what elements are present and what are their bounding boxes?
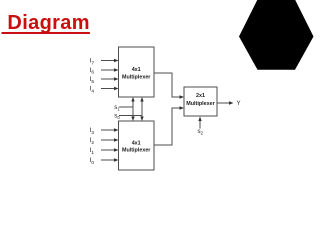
mux U2 4x1 (lower)	[119, 121, 155, 170]
svg-text:I1: I1	[90, 147, 95, 156]
input I0	[90, 157, 119, 166]
wire s0 vertical (to both muxes)	[140, 97, 143, 121]
svg-text:s1: s1	[114, 104, 120, 112]
svg-text:Multiplexer: Multiplexer	[186, 101, 215, 107]
mux U3 2x1	[184, 87, 217, 116]
svg-text:Y: Y	[237, 101, 241, 107]
wire U1 output to U3 input	[154, 73, 184, 99]
black hexagon	[239, 0, 314, 70]
input I2	[90, 137, 119, 146]
svg-text:Multiplexer: Multiplexer	[122, 75, 151, 81]
title "Diagram"	[2, 13, 90, 33]
svg-text:I6: I6	[90, 67, 95, 76]
svg-text:4x1: 4x1	[132, 140, 141, 146]
svg-text:I2: I2	[90, 137, 95, 146]
svg-text:s0: s0	[114, 113, 120, 121]
select s0 label and wire	[114, 113, 142, 121]
svg-text:Multiplexer: Multiplexer	[122, 148, 151, 154]
input I7	[90, 58, 119, 67]
svg-text:s2: s2	[198, 128, 204, 136]
input I1	[90, 147, 119, 156]
svg-text:I0: I0	[90, 157, 95, 166]
svg-text:I5: I5	[90, 76, 95, 85]
svg-text:4x1: 4x1	[132, 67, 141, 73]
svg-text:I3: I3	[90, 127, 95, 136]
input I3	[90, 127, 119, 136]
input I4	[90, 86, 119, 95]
svg-text:I7: I7	[90, 58, 95, 67]
input I5	[90, 76, 119, 85]
input I6	[90, 67, 119, 76]
svg-text:2x1: 2x1	[196, 93, 205, 99]
wire U2 output to U3 input	[154, 106, 184, 145]
wire U3 output Y	[217, 101, 241, 107]
wire s1 vertical (to both muxes)	[131, 97, 134, 121]
mux U1 4x1 (upper)	[119, 47, 155, 97]
select s2 wire and label	[198, 117, 204, 136]
svg-text:I4: I4	[90, 86, 95, 95]
select s1 label and wire	[114, 104, 133, 112]
